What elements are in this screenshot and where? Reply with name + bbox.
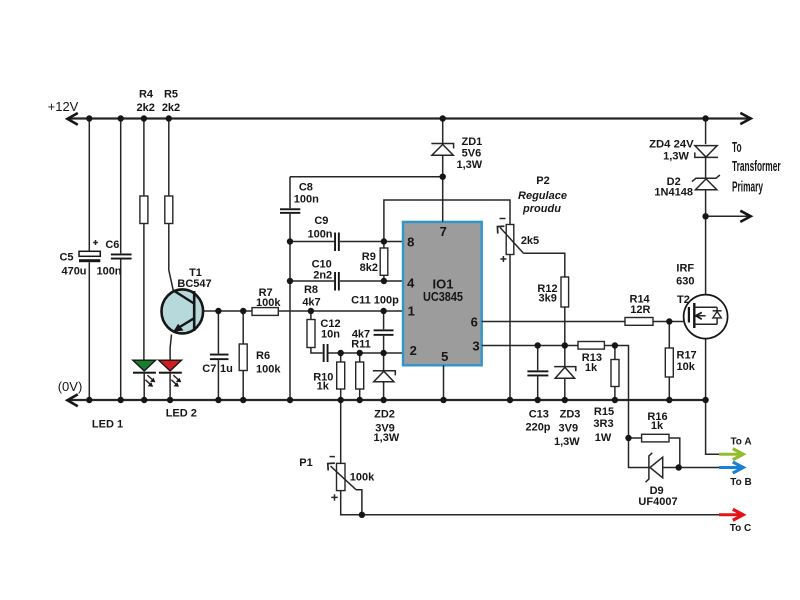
svg-text:proudu: proudu [522, 203, 561, 215]
LED 2 (red) [159, 360, 182, 371]
svg-text:ZD2: ZD2 [374, 409, 395, 421]
svg-text:1,3W: 1,3W [663, 150, 689, 162]
resistor R5 [168, 119, 170, 197]
blue To B arrow [719, 466, 741, 469]
svg-text:220p: 220p [525, 422, 550, 434]
svg-text:1,3W: 1,3W [554, 436, 580, 448]
svg-text:1N4148: 1N4148 [654, 186, 693, 198]
svg-text:100k: 100k [256, 297, 281, 309]
wire pin3 row [482, 345, 578, 347]
resistor R9 [383, 242, 385, 282]
ground bus with C8 [289, 177, 291, 209]
svg-text:2k2: 2k2 [137, 102, 155, 114]
zener ZD4 [705, 119, 707, 145]
svg-text:1,3W: 1,3W [456, 159, 482, 171]
svg-text:Transformer: Transformer [732, 157, 781, 174]
resistor R11 [359, 353, 361, 362]
svg-text:To: To [732, 138, 742, 155]
svg-text:ZD4 24V: ZD4 24V [649, 139, 694, 151]
svg-text:P1: P1 [299, 457, 312, 469]
svg-text:5: 5 [441, 349, 448, 364]
svg-text:C6: C6 [105, 239, 119, 251]
+12V rail right arrowhead [740, 113, 750, 124]
svg-text:BC547: BC547 [177, 278, 211, 290]
svg-text:100n: 100n [96, 266, 121, 278]
svg-text:T2: T2 [677, 294, 690, 306]
wire pin5 to 0V [443, 365, 445, 400]
svg-text:To B: To B [730, 477, 751, 488]
LED 2 light arrows [171, 375, 181, 387]
svg-text:To C: To C [730, 523, 751, 534]
svg-text:10n: 10n [321, 328, 340, 340]
svg-text:C8: C8 [299, 182, 313, 194]
svg-text:12R: 12R [630, 304, 650, 316]
svg-text:630: 630 [676, 275, 694, 287]
node To Transformer Primary labels [732, 138, 781, 195]
resistor R4 [143, 119, 145, 197]
svg-text:LED 1: LED 1 [92, 419, 123, 431]
svg-text:3: 3 [472, 338, 479, 353]
0V rail [68, 399, 706, 401]
svg-text:100k: 100k [350, 472, 375, 484]
svg-text:ZD3: ZD3 [560, 409, 581, 421]
capacitor C6 [120, 119, 122, 254]
svg-text:2: 2 [410, 343, 417, 358]
svg-text:1W: 1W [595, 432, 612, 444]
wire pin7 column [442, 177, 444, 222]
svg-text:7: 7 [440, 224, 447, 239]
zener ZD1 [442, 119, 444, 145]
transistor T1 BC547 [162, 289, 204, 333]
wire pin4 row [290, 280, 334, 282]
svg-text:C13: C13 [529, 409, 549, 421]
svg-text:6: 6 [471, 314, 478, 329]
svg-text:LED 2: LED 2 [166, 408, 197, 420]
svg-text:4k7: 4k7 [302, 297, 320, 309]
resistor R17 [668, 322, 670, 349]
svg-text:R4: R4 [139, 89, 154, 101]
diode D9 UF4007 [629, 438, 649, 468]
diode D2 1N4148 [692, 175, 720, 182]
svg-text:C5: C5 [59, 252, 73, 264]
svg-text:5V6: 5V6 [462, 148, 482, 160]
svg-text:+12V: +12V [48, 99, 79, 114]
svg-text:C9: C9 [314, 215, 328, 227]
capacitor C13 [537, 346, 539, 371]
svg-text:C7: C7 [202, 363, 216, 375]
svg-text:UF4007: UF4007 [638, 496, 677, 508]
resistor R6 [242, 311, 244, 344]
potentiometer P1 [340, 400, 342, 463]
svg-text:IRF: IRF [676, 262, 694, 274]
svg-text:P2: P2 [536, 175, 549, 187]
svg-text:R6: R6 [256, 350, 270, 362]
wire to transformer arrow 2 [706, 215, 750, 217]
svg-text:R8: R8 [304, 284, 318, 296]
svg-text:4: 4 [407, 276, 415, 291]
svg-text:To A: To A [730, 437, 751, 448]
zener ZD3 [564, 346, 566, 367]
resistor R10 [340, 353, 342, 362]
svg-text:10k: 10k [677, 361, 696, 373]
resistor R7 [252, 308, 278, 316]
green To A arrow [706, 400, 719, 454]
svg-text:C11 100p: C11 100p [351, 295, 399, 307]
svg-text:3R3: 3R3 [593, 418, 613, 430]
svg-text:2k2: 2k2 [162, 102, 180, 114]
wire drain column [705, 216, 707, 400]
svg-text:Primary: Primary [732, 178, 763, 195]
capacitor C9 [334, 233, 336, 252]
svg-text:3V9: 3V9 [559, 422, 579, 434]
svg-text:2k5: 2k5 [521, 235, 539, 247]
svg-text:1,3W: 1,3W [374, 432, 400, 444]
wire Vref to P2 top [384, 200, 510, 242]
resistor R14 [625, 318, 653, 326]
svg-text:(0V): (0V) [58, 379, 83, 394]
svg-text:470u: 470u [61, 266, 86, 278]
svg-text:1k: 1k [651, 420, 664, 432]
svg-text:1: 1 [408, 304, 415, 319]
resistor R13 [578, 342, 604, 350]
svg-text:R5: R5 [164, 89, 178, 101]
svg-text:R15: R15 [594, 406, 614, 418]
LED 1 light arrows [145, 375, 155, 387]
svg-text:2n2: 2n2 [313, 270, 332, 282]
svg-text:100k: 100k [256, 363, 281, 375]
wire top of C8 to ZD1 node [290, 176, 443, 178]
resistor R16 [629, 437, 642, 439]
svg-text:100n: 100n [307, 229, 332, 241]
svg-text:R11: R11 [351, 339, 371, 351]
svg-text:UC3845: UC3845 [423, 289, 463, 304]
svg-text:1k: 1k [317, 381, 330, 393]
svg-text:3k9: 3k9 [539, 293, 557, 305]
wire pin1 row [278, 310, 403, 312]
svg-text:ZD1: ZD1 [462, 136, 483, 148]
wire pin2 row [329, 352, 404, 354]
svg-text:8: 8 [407, 235, 414, 250]
potentiometer P2 [506, 225, 514, 255]
svg-text:R17: R17 [677, 350, 697, 362]
svg-text:Regulace: Regulace [518, 190, 567, 202]
capacitor C12 [323, 344, 325, 362]
op-amp/PWM IC U1 UC3845 body [403, 222, 482, 365]
capacitor C8 [280, 208, 300, 210]
capacitor C5 [88, 119, 90, 252]
wire pin8 row [290, 241, 334, 243]
resistor R15 [614, 346, 616, 360]
svg-text:1u: 1u [220, 363, 233, 375]
0V rail left arrowhead [67, 394, 77, 406]
resistor R8 [307, 320, 315, 348]
+12V rail left arrowhead [67, 113, 77, 125]
wire T1 base row [204, 310, 252, 312]
svg-text:1k: 1k [585, 362, 598, 374]
red To C arrow [719, 513, 741, 516]
transistor T2 IRF630 [684, 295, 728, 339]
svg-text:8k2: 8k2 [360, 262, 378, 274]
capacitor C7 [217, 311, 219, 354]
resistor R12 [524, 253, 565, 277]
+12V rail [68, 117, 750, 119]
LED 1 (green) [133, 360, 156, 371]
zener ZD2 [383, 353, 385, 371]
svg-text:100n: 100n [294, 193, 319, 205]
capacitor C11 [383, 311, 385, 329]
wire pin6 row [482, 321, 625, 323]
capacitor C10 [334, 272, 336, 291]
